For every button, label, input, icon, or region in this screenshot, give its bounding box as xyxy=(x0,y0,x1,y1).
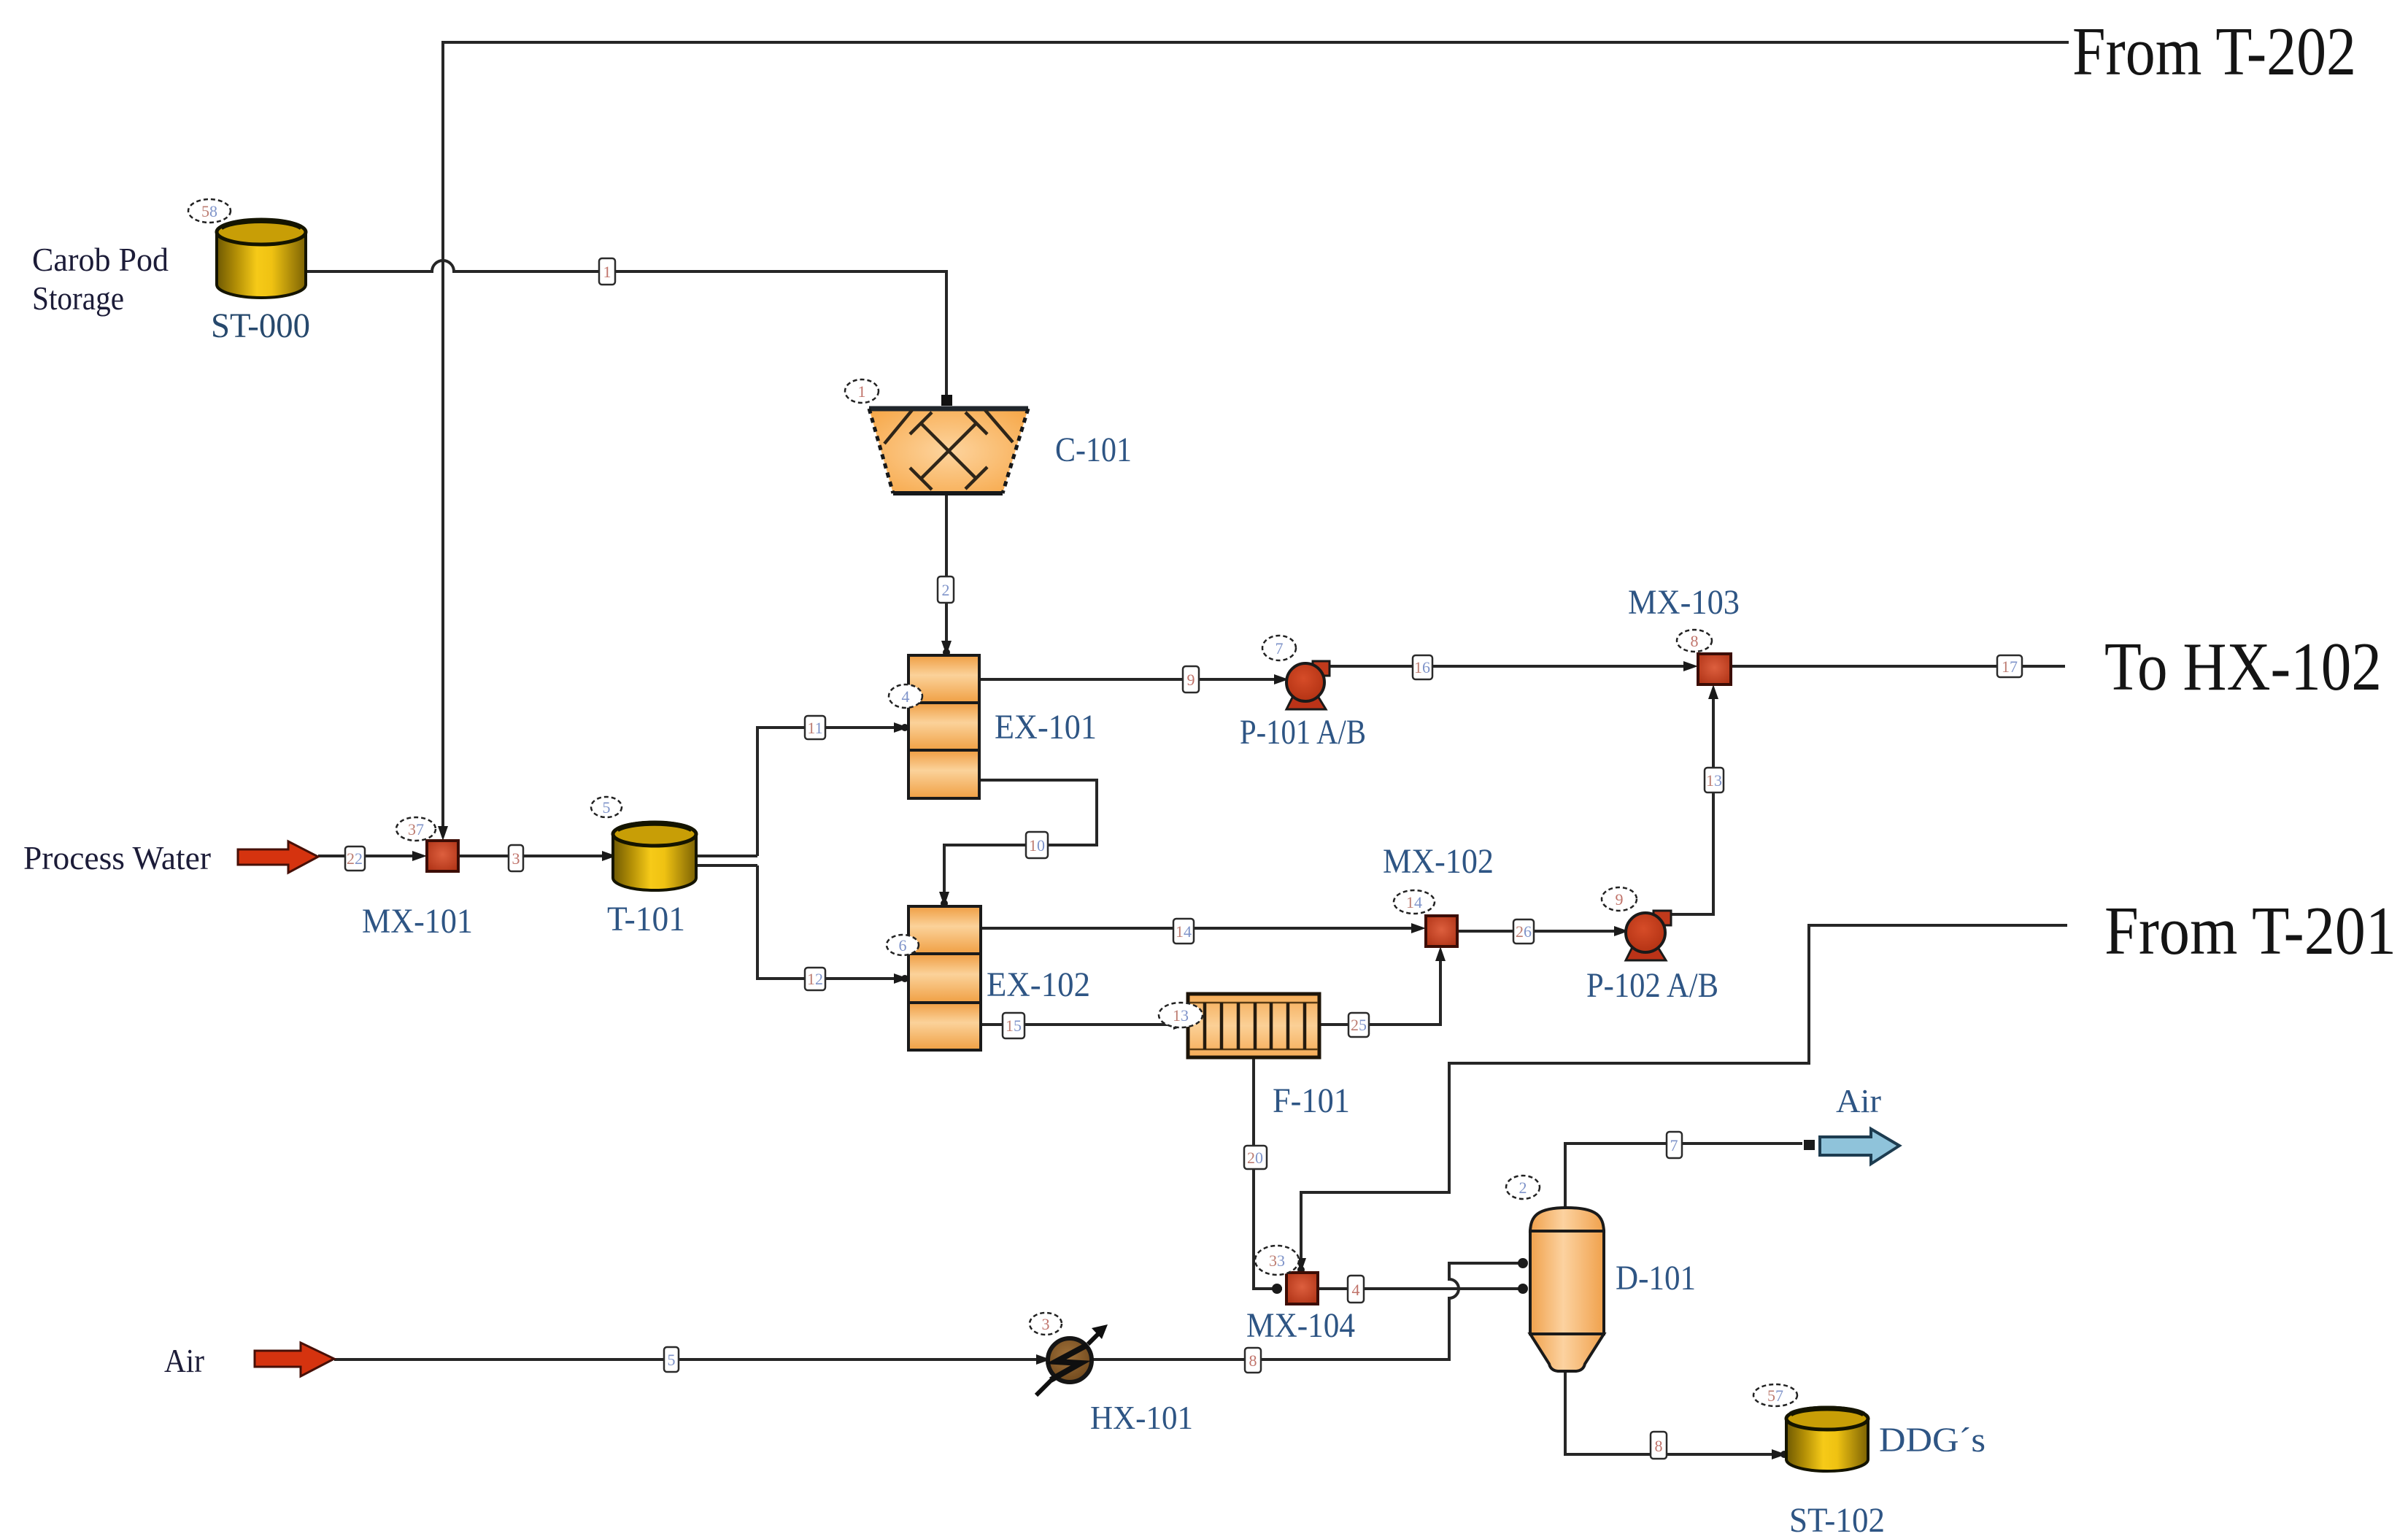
junction square into Air out arrow xyxy=(1804,1140,1815,1150)
bubble 13 F-101 xyxy=(1159,1003,1203,1027)
svg-text:From T-201: From T-201 xyxy=(2104,893,2396,969)
svg-text:D-101: D-101 xyxy=(1616,1259,1696,1297)
arrow into T-101 left xyxy=(602,851,617,861)
svg-text:13: 13 xyxy=(1173,1006,1189,1025)
svg-text:To HX-102: To HX-102 xyxy=(2104,629,2382,705)
svg-text:P-101 A/B: P-101 A/B xyxy=(1240,713,1366,752)
svg-text:7: 7 xyxy=(1670,1136,1678,1154)
wire EX-101 recycle loop to EX-102 (stream 10) xyxy=(944,780,1097,902)
stream tag 25 xyxy=(1348,1013,1369,1037)
arrow into MX-102 bottom xyxy=(1435,946,1446,961)
svg-text:MX-103: MX-103 xyxy=(1628,583,1740,622)
wire P-102 discharge up to MX-103 (stream 13) xyxy=(1671,689,1713,914)
bubble 6 EX-102 xyxy=(887,935,919,955)
wire T-101 to EX-101 (stream 11) xyxy=(757,728,904,856)
stream tag 18 xyxy=(1651,1432,1667,1459)
svg-text:11: 11 xyxy=(807,719,822,737)
svg-text:26: 26 xyxy=(1516,922,1532,941)
pump P-101 A/B xyxy=(1286,661,1330,709)
storage bin ST-000 xyxy=(217,220,306,298)
stream tag 17 xyxy=(1997,655,2022,677)
wire EX-102 to F-101 (stream 15) xyxy=(981,1023,1188,1026)
arrow into F-101 left xyxy=(1173,1019,1188,1030)
wire F-101 to MX-104 (stream 20) xyxy=(1254,1057,1282,1289)
stream tag 2 xyxy=(938,576,954,603)
bubble 33 MX-104 xyxy=(1255,1246,1299,1275)
svg-text:10: 10 xyxy=(1029,836,1045,855)
arrow into MX-103 left xyxy=(1683,661,1698,671)
mixer MX-102 xyxy=(1426,916,1457,946)
mixer MX-104 xyxy=(1286,1273,1318,1304)
arrow into MX-103 bottom xyxy=(1708,684,1718,699)
svg-text:5: 5 xyxy=(668,1351,676,1369)
bubble 9 P-102 xyxy=(1602,887,1637,911)
svg-text:Air: Air xyxy=(164,1342,204,1379)
svg-text:HX-101: HX-101 xyxy=(1090,1399,1193,1436)
svg-text:9: 9 xyxy=(1616,890,1624,909)
arrow into MX-102 left xyxy=(1411,923,1426,933)
svg-text:7: 7 xyxy=(1276,639,1284,657)
feed arrow Air (bottom) xyxy=(255,1343,334,1376)
filter F-101 xyxy=(1188,994,1319,1057)
svg-text:MX-104: MX-104 xyxy=(1246,1306,1355,1345)
svg-text:58: 58 xyxy=(201,202,217,220)
wire ST-000 to C-101 (stream 1) with hop over vertical xyxy=(304,261,946,403)
svg-text:25: 25 xyxy=(1351,1016,1367,1034)
svg-text:6: 6 xyxy=(899,936,907,954)
svg-text:4: 4 xyxy=(1352,1281,1360,1299)
wire From T-201 to MX-104 xyxy=(1301,925,2067,1268)
stream tag 15 xyxy=(1003,1013,1024,1038)
arrow into MX-101 left xyxy=(412,851,427,861)
mixer MX-103 xyxy=(1698,654,1731,684)
svg-text:F-101: F-101 xyxy=(1273,1081,1350,1120)
svg-text:T-101: T-101 xyxy=(607,900,685,938)
svg-text:4: 4 xyxy=(902,687,910,706)
bubble 57 ST-102 xyxy=(1753,1384,1797,1406)
bubble 14 MX-102 xyxy=(1394,890,1435,914)
wire Air feed to HX-101 (stream 5) xyxy=(334,1358,1048,1361)
bubble 4 EX-101 xyxy=(889,684,922,708)
stream tag 14 xyxy=(1173,919,1194,944)
stream tag 16 xyxy=(1413,655,1432,679)
stream tag 10 xyxy=(1026,832,1048,858)
wire F-101 to MX-102 (stream 25) xyxy=(1319,951,1440,1025)
arrow into EX-102 top xyxy=(939,892,949,906)
svg-text:MX-102: MX-102 xyxy=(1383,842,1494,881)
stream tag 12 xyxy=(805,968,825,990)
stream tag 1 xyxy=(599,258,615,285)
svg-text:2: 2 xyxy=(942,581,950,599)
wire MX-103 to HX-102 (stream 17) xyxy=(1731,665,2065,668)
wire EX-102 to MX-102 (stream 14) xyxy=(981,927,1421,930)
svg-text:Air: Air xyxy=(1836,1082,1881,1119)
arrow into P-101 xyxy=(1274,674,1289,684)
svg-text:C-101: C-101 xyxy=(1055,431,1132,469)
svg-text:15: 15 xyxy=(1006,1017,1022,1035)
BUBBLES xyxy=(188,199,1797,1406)
arrow into MX-101 top xyxy=(438,826,448,841)
pump P-102 A/B xyxy=(1626,911,1671,960)
svg-text:3: 3 xyxy=(512,849,520,868)
wire D-101 bottom to ST-102 (stream 18) xyxy=(1565,1371,1782,1454)
svg-text:12: 12 xyxy=(807,970,823,988)
wire MX-102 to P-102 (stream 26) xyxy=(1457,930,1623,933)
junction dots into D-101 xyxy=(1518,1284,1528,1294)
svg-text:2: 2 xyxy=(1519,1179,1527,1197)
tank T-101 xyxy=(613,822,696,890)
arrow into HX-101 xyxy=(1036,1354,1051,1365)
svg-text:20: 20 xyxy=(1247,1149,1263,1167)
svg-text:3: 3 xyxy=(1042,1315,1050,1333)
wire MX-104 to D-101 (stream 4) xyxy=(1317,1287,1525,1290)
arrow into MX-104 top xyxy=(1296,1258,1306,1273)
bubble 58 ST-000 xyxy=(188,199,231,223)
stream tag 9 xyxy=(1183,666,1199,693)
bubble 8 MX-103 xyxy=(1677,630,1712,652)
svg-text:8: 8 xyxy=(1249,1351,1257,1370)
svg-text:ST-000: ST-000 xyxy=(211,306,310,345)
TAGS xyxy=(345,258,2022,1459)
stream tag 8 xyxy=(1245,1348,1261,1373)
extractor column EX-102 xyxy=(908,906,981,1050)
outlet arrow Air (top right, blue) xyxy=(1820,1129,1899,1164)
arrow into EX-101 left xyxy=(894,722,908,733)
bubble 7 P-101 xyxy=(1262,636,1296,660)
bubble 2 D-101 xyxy=(1506,1176,1540,1199)
svg-text:8: 8 xyxy=(1655,1437,1663,1455)
wire C-101 to EX-101 (stream 2) xyxy=(945,490,948,651)
svg-text:14: 14 xyxy=(1406,893,1422,911)
bubble 1 C-101 xyxy=(845,379,879,403)
svg-text:22: 22 xyxy=(347,849,363,868)
EQUIPMENT xyxy=(217,220,1899,1471)
wire Process Water to MX-101 (stream 22) xyxy=(318,855,422,857)
svg-text:37: 37 xyxy=(408,820,424,838)
stream tag 20 xyxy=(1244,1146,1267,1169)
svg-text:DDG´s: DDG´s xyxy=(1879,1421,1986,1459)
stream tag 3 xyxy=(509,845,523,871)
feed arrow Process Water xyxy=(238,841,318,873)
svg-text:From T-202: From T-202 xyxy=(2072,14,2356,90)
bubble 3 HX-101 xyxy=(1030,1313,1062,1335)
wire D-101 top to Air out (stream 7) xyxy=(1565,1143,1802,1208)
storage bin ST-102 xyxy=(1786,1408,1868,1471)
svg-text:14: 14 xyxy=(1176,922,1192,941)
dryer vessel D-101 xyxy=(1530,1208,1604,1371)
wire P-101 to MX-103 (stream 16) xyxy=(1327,665,1694,668)
wire HX-101 to D-101 (stream 8) with hop over stream 4 xyxy=(1091,1263,1525,1359)
arrow into ST-102 xyxy=(1772,1449,1786,1459)
stream tag 7 xyxy=(1667,1132,1682,1158)
svg-text:57: 57 xyxy=(1767,1386,1783,1405)
crusher C-101 xyxy=(869,395,1028,493)
wire T-101 double outlet xyxy=(694,856,757,865)
extractor column EX-101 xyxy=(908,655,979,798)
svg-text:ST-102: ST-102 xyxy=(1789,1501,1885,1539)
svg-text:EX-101: EX-101 xyxy=(995,708,1097,747)
stream tag 13 (vertical line) xyxy=(1705,768,1724,792)
svg-text:16: 16 xyxy=(1414,658,1430,676)
arrow into EX-101 top xyxy=(941,641,952,655)
heat exchanger HX-101 xyxy=(1036,1324,1108,1395)
stream tag 22 xyxy=(345,846,365,871)
stream tag 26 xyxy=(1513,919,1534,944)
ARROWHEADS AND JUNCTION DOTS xyxy=(412,641,1815,1459)
svg-text:1: 1 xyxy=(603,263,611,281)
arrow into EX-102 left xyxy=(894,973,908,984)
wire MX-101 to T-101 (stream 3) xyxy=(458,855,617,857)
svg-text:EX-102: EX-102 xyxy=(987,965,1090,1004)
wire EX-101 to P-101 (stream 9) xyxy=(979,678,1283,681)
svg-text:17: 17 xyxy=(2002,657,2018,676)
svg-text:P-102 A/B: P-102 A/B xyxy=(1586,966,1718,1005)
svg-text:33: 33 xyxy=(1269,1251,1285,1270)
svg-text:Process Water: Process Water xyxy=(23,839,211,876)
svg-text:Carob Pod: Carob Pod xyxy=(32,241,169,278)
svg-text:13: 13 xyxy=(1706,771,1722,790)
svg-text:8: 8 xyxy=(1691,632,1699,650)
wire T-101 to EX-102 (stream 12) xyxy=(757,865,904,979)
svg-text:1: 1 xyxy=(858,382,866,401)
svg-text:9: 9 xyxy=(1187,671,1195,689)
svg-text:Storage: Storage xyxy=(32,279,124,317)
bubble 5 T-101 xyxy=(591,797,622,817)
svg-text:5: 5 xyxy=(603,798,611,817)
stream tag 4 xyxy=(1348,1276,1364,1303)
svg-text:MX-101: MX-101 xyxy=(362,902,473,941)
junction dot into MX-104 left xyxy=(1272,1284,1282,1294)
arrow into P-102 xyxy=(1614,926,1629,936)
stream tag 5 xyxy=(664,1347,679,1372)
bubble 37 MX-101 xyxy=(396,817,436,841)
mixer MX-101 xyxy=(427,841,458,871)
wire from T-202 top header xyxy=(443,42,2069,836)
stream tag 11 xyxy=(805,716,825,739)
